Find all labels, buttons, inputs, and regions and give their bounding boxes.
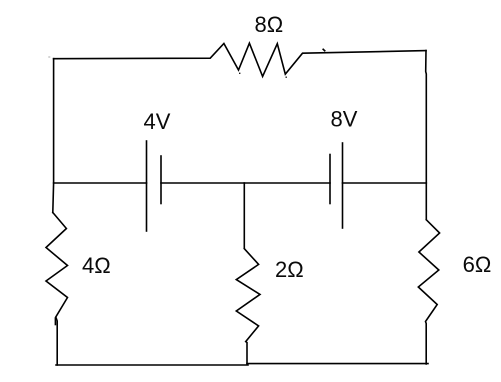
svg-text:8Ω: 8Ω [255, 12, 284, 37]
svg-text:4Ω: 4Ω [82, 253, 111, 278]
svg-text:8V: 8V [331, 106, 358, 131]
svg-text:2Ω: 2Ω [275, 257, 304, 282]
svg-text:4V: 4V [144, 109, 171, 134]
svg-text:6Ω: 6Ω [463, 252, 492, 277]
